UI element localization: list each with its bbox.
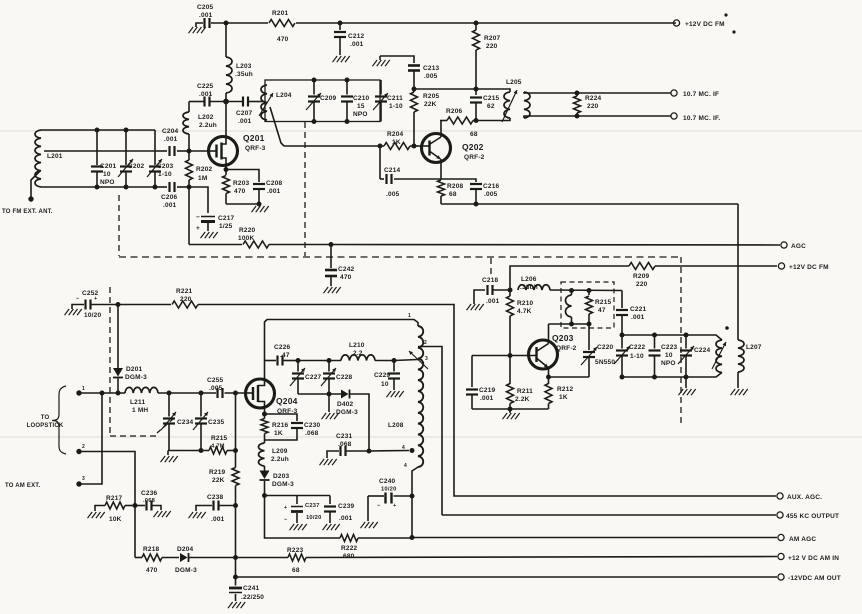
svg-text:4: 4 [402,445,405,451]
svg-text:R206: R206 [446,108,463,115]
node [410,494,415,499]
wire (emitter) [548,368,550,378]
svg-text:.001: .001 [267,188,281,195]
wire (Q204 drain) [258,361,265,386]
svg-text:1: 1 [82,386,85,392]
svg-text:.001: .001 [164,136,178,143]
diode D402 [336,390,369,452]
svg-text:10K: 10K [109,516,122,523]
node (base) [508,353,513,358]
capacitor C237 [284,496,322,524]
svg-text:C203: C203 [157,163,174,170]
svg-text:2.2: 2.2 [353,350,363,357]
svg-text:R224: R224 [585,95,602,102]
resistor R202 [186,149,213,188]
svg-text:C202: C202 [128,163,145,170]
ground (C231) [320,459,337,465]
svg-text:10: 10 [381,381,389,388]
ground (C217) [201,232,218,238]
svg-text:−: − [284,517,287,523]
svg-text:.33uh: .33uh [520,284,538,291]
svg-text:DGM-3: DGM-3 [336,409,358,416]
node [410,535,415,540]
svg-text:C230: C230 [304,422,321,429]
node [412,87,417,92]
svg-text:10: 10 [103,171,111,178]
svg-text:C252: C252 [82,290,99,297]
wire (Q202 base) [414,145,430,147]
resistor R207 [473,23,501,89]
svg-text:1-10: 1-10 [389,103,403,110]
svg-text:NPO: NPO [100,179,115,186]
node [199,448,204,453]
svg-text:470: 470 [146,567,158,574]
svg-text:.068: .068 [338,441,352,448]
arrow (L207 adjust) [712,342,726,369]
svg-text:.001: .001 [339,515,353,522]
node [296,358,301,363]
svg-text:5N550: 5N550 [595,359,615,366]
dashed gang link [157,419,173,433]
wire (AM tuning line) [79,392,246,394]
dashed divider [119,256,678,258]
svg-text:-12VDC AM OUT: -12VDC AM OUT [788,575,841,582]
wire (Q204 source) [258,402,265,415]
node [569,322,592,327]
resistor R223 [287,547,306,574]
svg-text:220: 220 [636,281,648,288]
node [508,407,513,412]
ground (C237) [290,524,307,530]
diode D201 [113,305,147,394]
svg-text:D201: D201 [126,366,143,373]
ground (R217) [88,512,105,518]
svg-text:C208: C208 [266,180,283,187]
transformer L207 primary [716,340,762,373]
wire (tuning gang rail) [168,450,236,452]
svg-text:C236: C236 [141,490,158,497]
svg-text:.22/250: .22/250 [241,594,264,601]
svg-text:L205: L205 [506,79,522,86]
svg-text:.001: .001 [211,516,225,523]
svg-text:+12V DC FM: +12V DC FM [789,264,829,271]
node [575,91,580,119]
tap mark 4 [402,445,405,451]
svg-text:C240: C240 [379,478,396,485]
wire (Q201 source) [222,158,227,170]
capacitor C234 [161,393,194,451]
resistor R215 (47) [586,291,612,325]
wire (to L208 tap) [394,360,418,361]
capacitor C231 [327,433,409,458]
resistor R221 [118,288,198,308]
svg-text:10.7 MC. IF.: 10.7 MC. IF. [683,115,720,122]
svg-text:L210: L210 [349,342,365,349]
svg-text:R222: R222 [341,545,358,552]
svg-text:DGM-3: DGM-3 [272,481,294,488]
resistor R211 [507,356,534,410]
terminal 10.7 MC IF lower [671,113,721,122]
svg-text:1-10: 1-10 [158,171,172,178]
wire (L201 tap line) [44,150,157,152]
svg-text:C225: C225 [197,83,214,90]
capacitor C219 [466,356,510,410]
dashed gang line [110,435,156,437]
svg-text:R204: R204 [387,131,404,138]
svg-text:C255: C255 [207,377,224,384]
svg-text:R223: R223 [287,547,304,554]
capacitor C207 [236,97,253,126]
capacitor C203 [147,130,174,187]
svg-text:.005: .005 [386,191,400,198]
svg-text:.005: .005 [424,73,438,80]
svg-text:680: 680 [343,553,355,560]
svg-text:R216: R216 [272,422,289,429]
svg-text:C205: C205 [197,4,214,11]
svg-text:10/20: 10/20 [306,515,322,521]
svg-text:R221: R221 [176,288,193,295]
svg-text:470: 470 [277,36,289,43]
inductor L211 [125,387,158,414]
svg-text:15: 15 [357,103,365,110]
svg-text:68: 68 [292,567,300,574]
svg-text:.068: .068 [305,430,319,437]
capacitor C220 [549,324,616,377]
capacitor C202 [118,130,145,187]
node [257,202,262,207]
node [652,333,657,380]
transistor Q204 [246,379,298,415]
capacitor C226 [265,344,299,366]
node [116,302,121,307]
resistor R210 [507,290,534,356]
svg-text:R210: R210 [517,300,534,307]
svg-text:+: + [196,225,200,232]
svg-text:.068: .068 [143,498,156,504]
svg-text:L202: L202 [198,114,214,121]
dashed converter edge [680,257,682,425]
wire -12V line [236,576,778,578]
wire (tap 2 to 455KC) [418,347,442,516]
node [233,448,238,453]
svg-text:C222: C222 [629,344,646,351]
svg-text:220: 220 [587,103,599,110]
ground (C218) [467,304,484,310]
svg-text:1K: 1K [559,394,568,401]
svg-text:C218: C218 [482,277,499,284]
svg-text:C212: C212 [348,33,365,40]
ground (C238) [189,512,206,518]
wire +12V rail [211,22,676,24]
svg-text:4: 4 [404,463,407,469]
svg-text:1M: 1M [198,175,207,182]
svg-text:C207: C207 [236,110,253,117]
resistor R217 [95,495,135,523]
svg-text:C216: C216 [483,183,500,190]
inductor L208 [388,326,423,467]
svg-text:.001: .001 [163,202,177,209]
node [620,333,625,338]
svg-text:C214: C214 [384,167,401,174]
svg-text:22K: 22K [212,477,225,484]
svg-text:C201: C201 [100,163,117,170]
terminal loopstick 1 [76,386,85,396]
node (C214 tap) [378,144,383,149]
node [508,288,513,293]
node [474,118,479,123]
terminal AM ext 3 [76,476,85,487]
svg-text:C209: C209 [320,95,337,102]
svg-text:3: 3 [425,356,428,362]
node [262,493,267,498]
capacitor C205 [197,4,214,28]
terminal FM antenna [2,171,53,215]
wire (collector) [548,324,550,344]
svg-text:−: − [76,296,79,302]
svg-text:R220: R220 [239,227,256,234]
svg-text:LOOPSTICK: LOOPSTICK [27,423,64,429]
svg-text:C239: C239 [338,503,355,510]
svg-text:C231: C231 [336,433,353,440]
svg-text:L201: L201 [47,153,63,160]
node (emitter) [546,375,551,380]
ground (R203/C208) [252,206,269,212]
svg-text:100K: 100K [238,235,254,242]
svg-text:L207: L207 [746,344,762,351]
wire (secondary to Q202) [737,204,739,340]
svg-text:2: 2 [82,444,85,450]
wire [265,495,331,497]
inductor L201 [35,130,63,187]
wire (drain row) [189,101,263,103]
inductor L203 [226,23,253,102]
resistor R216 [261,414,289,440]
svg-text:C229: C229 [374,372,391,379]
arrow (Q203 emitter) [537,359,548,368]
terminal AGC [781,242,806,250]
arrow (Q202 emitter) [430,152,441,160]
svg-text:TO AM EXT.: TO AM EXT. [5,483,40,489]
ground (C205) [189,23,206,33]
node [329,242,334,247]
node [392,358,397,363]
node [474,202,479,207]
svg-text:TO: TO [41,415,50,421]
terminal +12V AM [778,553,839,562]
inductor (osc coil) [566,291,572,325]
capacitor C225 [197,83,214,107]
svg-text:470: 470 [234,188,246,195]
svg-text:L211: L211 [130,399,145,406]
svg-text:QRF-3: QRF-3 [245,145,266,152]
resistor R208 [438,180,464,204]
svg-text:C234: C234 [177,419,194,426]
capacitor C201 [91,130,117,187]
svg-text:2.2K: 2.2K [515,396,530,403]
node (source) [224,167,229,172]
svg-text:Q201: Q201 [243,133,265,143]
svg-text:220: 220 [180,296,192,303]
wire [226,203,259,205]
svg-text:10: 10 [665,352,673,359]
svg-text:C228: C228 [336,374,353,381]
ground (C236) [154,511,171,517]
svg-text:R203: R203 [233,180,250,187]
svg-text:R219: R219 [209,469,226,476]
capacitor C204 [157,128,189,156]
svg-text:R212: R212 [557,386,574,393]
svg-text:.005: .005 [209,385,223,392]
svg-text:10/20: 10/20 [381,487,397,493]
svg-text:2.2uh: 2.2uh [199,122,217,129]
dashed tuner edge [304,122,306,256]
node [474,87,479,92]
node [233,503,238,508]
node (R207 tap) [474,21,479,26]
capacitor C228 [321,361,353,395]
capacitor C217 [189,187,235,232]
svg-text:220: 220 [486,43,498,50]
ground (C239) [323,524,340,530]
svg-text:DGM-3: DGM-3 [175,567,197,574]
arrow (L205 adjust) [502,90,517,122]
dashed coil box [561,282,614,328]
node (drain junction) [223,99,229,105]
resistor R203 [223,170,250,205]
ground (C212) [333,56,350,62]
node (source) [262,412,267,417]
ground (tank) [679,377,696,395]
capacitor C235 [193,393,225,451]
wire (L204 tap) [270,107,284,146]
wire [375,360,394,362]
svg-text:4.7M: 4.7M [211,444,225,450]
capacitor C229 [374,361,400,391]
svg-text:L204: L204 [276,92,292,99]
node [124,128,129,190]
label AM ext [5,483,40,489]
ground (Q203) [503,409,520,419]
svg-text:R211: R211 [517,388,533,395]
node [133,503,138,508]
svg-text:1: 1 [408,313,411,319]
loopstick bracket [27,386,66,454]
terminal 10.7 MC IF upper [671,90,719,98]
svg-text:R218: R218 [143,546,160,553]
svg-text:.001: .001 [350,41,364,48]
terminal AM AGC [778,534,817,543]
svg-text:10.7 MC. IF: 10.7 MC. IF [683,91,719,98]
wire (term 2) [79,452,135,558]
resistor R209 [629,263,655,289]
terminal -12V AM [778,574,841,582]
wire (L208 bottom) [412,467,418,538]
wire +12V FM line [510,266,777,290]
svg-text:2.2uh: 2.2uh [271,456,289,463]
wire (AGC loop) [265,496,341,539]
svg-text:.47: .47 [280,352,290,359]
capacitor C240 [368,478,412,521]
wire AGC line [331,244,780,247]
svg-text:AUX. AGC.: AUX. AGC. [787,494,822,501]
capacitor C213 [408,65,440,88]
svg-text:D204: D204 [177,546,194,553]
capacitor C209 [306,80,337,122]
node [684,333,689,380]
svg-text:R202: R202 [196,166,213,173]
node [153,185,158,190]
wire [441,203,476,205]
wire (tank top rail) [41,129,155,131]
resistor R220 [238,227,269,248]
svg-text:Q203: Q203 [552,333,574,343]
phasing dot [725,326,729,330]
wire (AGC divider) [235,393,237,577]
node (Q202 base) [412,144,417,149]
wire [298,393,341,395]
resistor R205 [411,89,440,146]
svg-text:C241: C241 [243,585,260,592]
capacitor C227 [290,361,322,395]
wire (collector rail to L208) [265,320,419,361]
wire (Q202 collector) [440,121,442,138]
wire (term 3) [79,393,102,484]
scan artifact line [0,130,862,132]
resistor R219 [209,468,239,486]
transistor Q201 [208,133,266,166]
tap mark 2 [424,340,427,346]
resistor R222 [340,535,412,561]
svg-text:AM AGC: AM AGC [789,536,816,543]
svg-text:.001: .001 [199,91,213,98]
wire (Q201 drain) [222,103,227,144]
inductor L210 [341,342,375,361]
node (tap 4) [410,448,415,453]
svg-text:L206: L206 [521,276,537,283]
ground (C229) [387,391,404,397]
wire AM AGC line [412,537,777,539]
terminal AUX AGC [777,493,822,501]
node [327,358,332,363]
wire (tank top rail) [622,335,722,340]
scan artifact line [0,436,862,438]
transistor Q203 [529,333,577,369]
svg-text:C213: C213 [423,65,440,72]
svg-text:C215: C215 [483,95,500,102]
svg-text:Q202: Q202 [462,142,484,152]
wire (emitter ground rail) [472,408,549,410]
tap mark 1 [408,313,411,319]
svg-text:470: 470 [340,274,352,281]
svg-text:QRF-2: QRF-2 [464,154,485,161]
svg-text:+: + [393,503,396,509]
capacitor C216 [441,179,500,204]
svg-text:2: 2 [424,340,427,346]
svg-text:1K: 1K [392,139,401,146]
ground (C242) [324,287,341,293]
arrow (L208 tap) [409,351,428,369]
svg-text:+: + [284,505,287,511]
node [345,78,350,125]
capacitor C210 [341,80,370,122]
svg-text:22K: 22K [424,101,437,108]
resistor R215 (4.7M) [209,435,228,454]
dashed gang line [109,287,111,436]
svg-text:62: 62 [487,103,495,110]
node (C212 tap) [338,21,343,26]
svg-text:R207: R207 [484,35,501,42]
svg-text:C238: C238 [207,494,224,501]
